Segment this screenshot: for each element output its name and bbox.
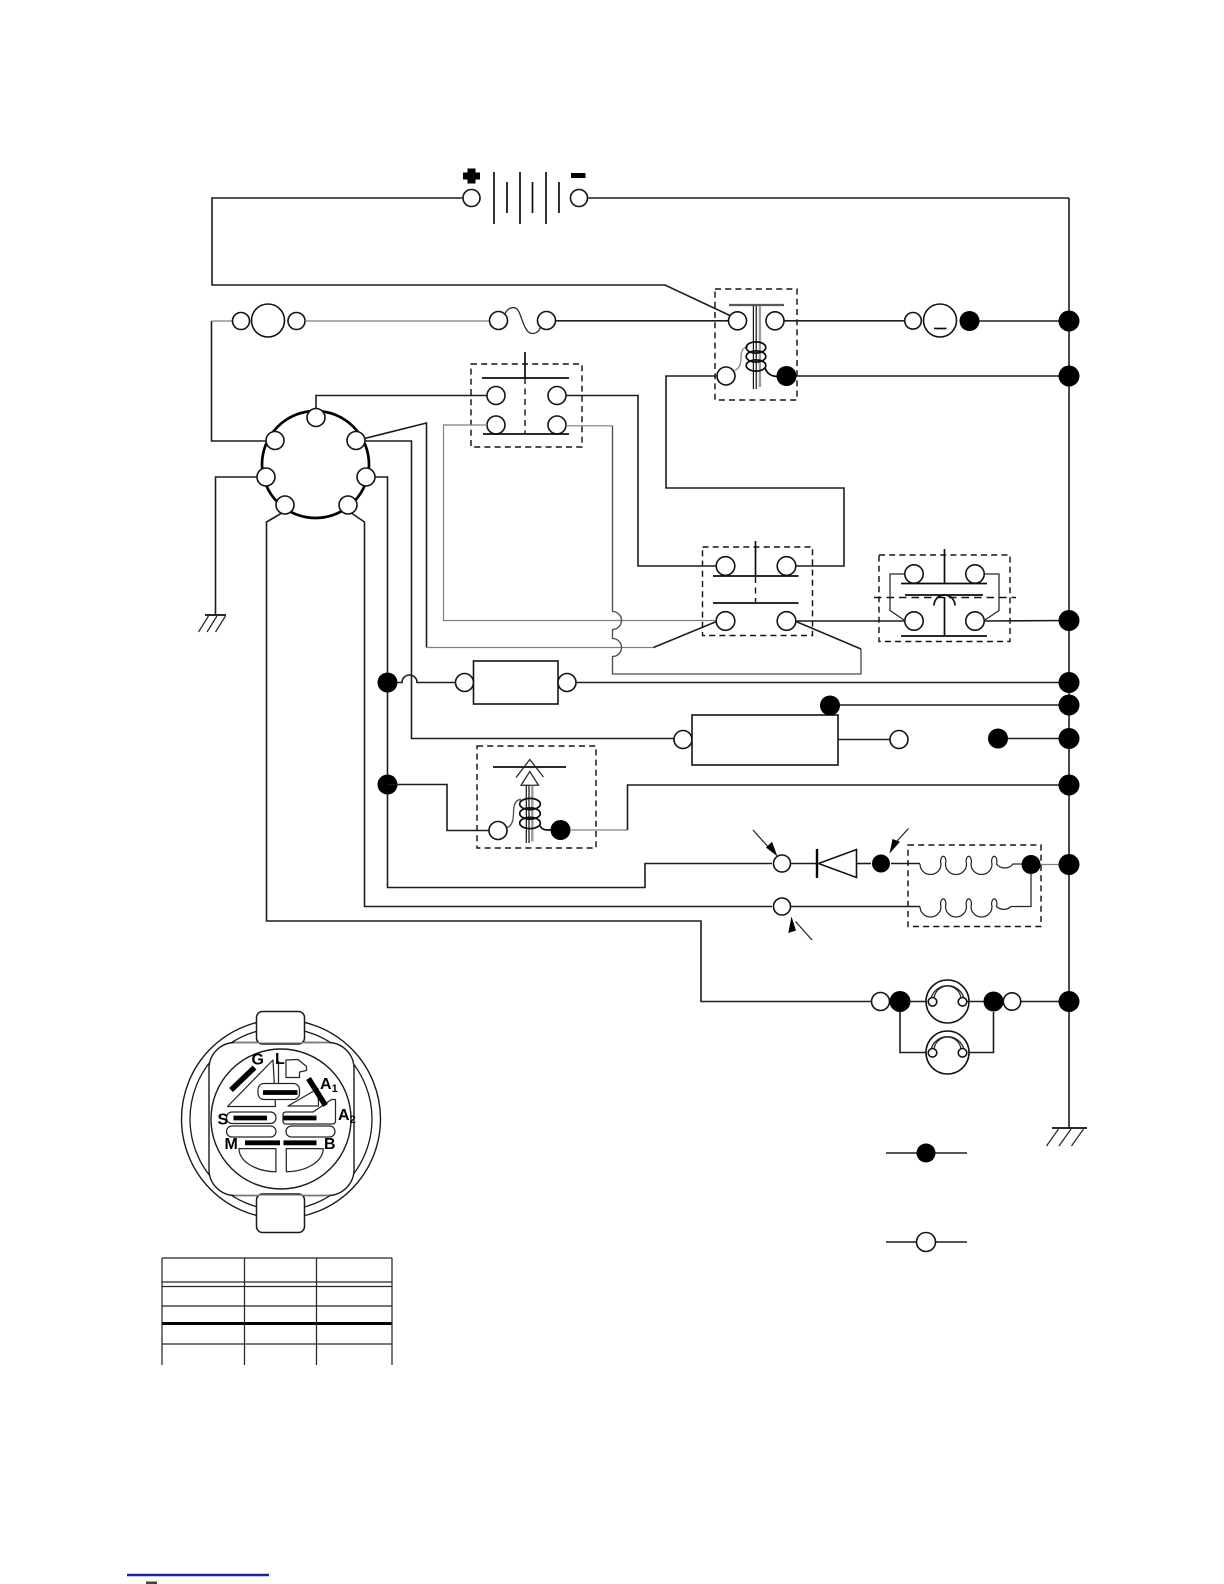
wire battery negative to right bus top — [588, 197, 1070, 199]
fuse F1 — [490, 308, 556, 334]
bus junction dot row6 — [1059, 775, 1080, 796]
wire fuel solenoid feed — [388, 785, 490, 831]
keyway slot S row left — [227, 1112, 277, 1124]
footer text remnant — [146, 1582, 157, 1584]
wire ammeter to fuse — [305, 320, 490, 322]
connector junction dot mid-right — [988, 729, 1008, 749]
headlamp E2 — [926, 1031, 969, 1074]
wire clutch-brake to PTO switch — [796, 620, 905, 622]
svg-text:S: S — [218, 1112, 229, 1129]
wire solenoid contact to charge indicator — [784, 320, 905, 322]
wire S pin down to magneto — [352, 514, 772, 907]
fuel solenoid Y1 (dashed) — [477, 746, 596, 848]
wire A1 pin diagonal to clutch switch — [365, 423, 427, 648]
headlight junction dot right — [984, 992, 1004, 1012]
wire interlock bottom-right down with hops — [566, 426, 861, 674]
ground symbol right — [1047, 1128, 1088, 1146]
wire run y647 to clutch-brake pin (grey) — [427, 647, 654, 649]
keyway slot empty left — [227, 1126, 277, 1137]
keyway quarter disc left — [239, 1149, 276, 1172]
keyway slot triangle G — [228, 1060, 276, 1107]
keyway quarter disc right — [286, 1149, 323, 1172]
arrow marker into kill terminal — [788, 917, 812, 941]
wire L pin down to headlights — [267, 514, 873, 1002]
wire A1 pin horizontal to module — [365, 441, 674, 739]
wire module to bus — [840, 704, 1069, 706]
key position bar mid-right — [284, 1116, 317, 1121]
ammeter A — [212, 304, 306, 337]
wire indicator to bus — [979, 320, 1069, 322]
battery BAT — [463, 169, 588, 225]
svg-text:M: M — [225, 1136, 238, 1153]
wire fuse to solenoid contact — [556, 320, 729, 322]
clutch-brake switch S3 (dashed) — [703, 541, 813, 636]
key switch connector face detail — [182, 1012, 381, 1233]
headlight junction dot left — [890, 991, 911, 1012]
keyway slot L pentagon — [286, 1060, 307, 1078]
pin S bottom-right — [339, 496, 357, 514]
junction dot resistor feed — [378, 673, 398, 693]
wire G pin to ground — [216, 477, 258, 615]
bus junction dot row4 — [1059, 672, 1080, 693]
headlight connector circle left — [872, 993, 890, 1011]
diode output junction dot — [872, 855, 890, 873]
wire headlights to bus — [1021, 1001, 1069, 1003]
wire ammeter branch down to ignition switch B pin — [212, 321, 267, 441]
junction dot fuel solenoid feed — [378, 775, 398, 795]
key position bar centre — [263, 1090, 298, 1095]
wire solenoid coil to bus — [796, 375, 1069, 377]
pin B upper-left — [266, 432, 284, 450]
diagonal into clutch-brake bottom-left pin — [654, 622, 717, 648]
legend open terminal symbol — [886, 1233, 967, 1252]
headlamp E1 — [926, 980, 969, 1023]
key position bar M — [245, 1140, 280, 1145]
charge indicator lamp — [905, 304, 957, 337]
keyway slot A2 flag — [283, 1100, 336, 1125]
bus junction dot row3 — [1059, 610, 1080, 631]
key position table — [162, 1258, 392, 1365]
footer rule (blue) — [127, 1574, 269, 1577]
keyway slot empty right — [286, 1126, 335, 1137]
ground symbol left — [199, 615, 227, 632]
magneto alternator G1 (dashed) — [791, 845, 1042, 927]
starter solenoid K1 (dashed) — [715, 289, 797, 400]
wire PTO switch to bus — [984, 620, 1069, 623]
pin G left — [257, 468, 275, 486]
ignition switch S1 (schematic circle) — [262, 411, 369, 518]
svg-text:G: G — [252, 1052, 264, 1069]
arrow marker into diode left — [753, 830, 778, 857]
pin IGN top — [307, 409, 325, 427]
bus junction dot row7 — [1059, 854, 1080, 875]
wire lower headlamp up — [969, 1012, 994, 1053]
bus junction dot row8 — [1059, 991, 1080, 1012]
svg-text:L: L — [275, 1051, 285, 1068]
resistor R1 — [456, 661, 577, 704]
diode D1 — [790, 849, 871, 878]
wire top pin to interlock switch — [316, 396, 487, 409]
spark module U1 — [674, 696, 908, 766]
PTO switch S4 (dashed) — [874, 549, 1016, 642]
wire to lower headlamp — [900, 1011, 926, 1053]
wire solenoid coil left to clutch switch — [666, 376, 844, 566]
arrow marker into diode output — [890, 829, 909, 854]
bus junction dot row5 — [1059, 695, 1080, 716]
svg-text:B: B — [324, 1136, 336, 1153]
key position bar S — [234, 1116, 268, 1121]
key position bar A1 diagonal — [309, 1079, 326, 1106]
wire interlock to clutch-brake switch top-left — [566, 396, 716, 567]
bus junction dot row1 — [1059, 311, 1080, 332]
headlight connector circle right — [1003, 993, 1020, 1010]
wire resistor to bus — [576, 682, 1069, 684]
legend solid junction symbol — [886, 1144, 967, 1163]
pin A1 upper-right — [347, 432, 365, 450]
magneto kill terminal circle — [774, 898, 791, 915]
keyway slot centre (white) — [258, 1084, 300, 1100]
wire resistor feed with hop — [397, 675, 456, 682]
wire magneto to bus — [1041, 864, 1070, 866]
wire fuel solenoid to bus — [570, 829, 628, 831]
keyway slot A1 triangle — [288, 1089, 319, 1107]
interlock switch S2 (dashed) — [471, 352, 582, 447]
pin L bottom-left — [276, 496, 294, 514]
junction dot after indicator — [960, 311, 980, 331]
wire interlock bottom-left down (grey) — [444, 425, 717, 621]
wire battery positive to left — [212, 198, 731, 316]
wire A2 pin down — [375, 477, 772, 888]
pin A2 right — [357, 468, 375, 486]
bus junction dot row2 — [1059, 366, 1080, 387]
right bus vertical — [1068, 198, 1070, 1128]
keyway rib center — [278, 1061, 280, 1083]
diode terminal circle — [774, 855, 791, 872]
key position bar G diagonal — [231, 1068, 255, 1091]
key position bar B — [284, 1140, 317, 1145]
